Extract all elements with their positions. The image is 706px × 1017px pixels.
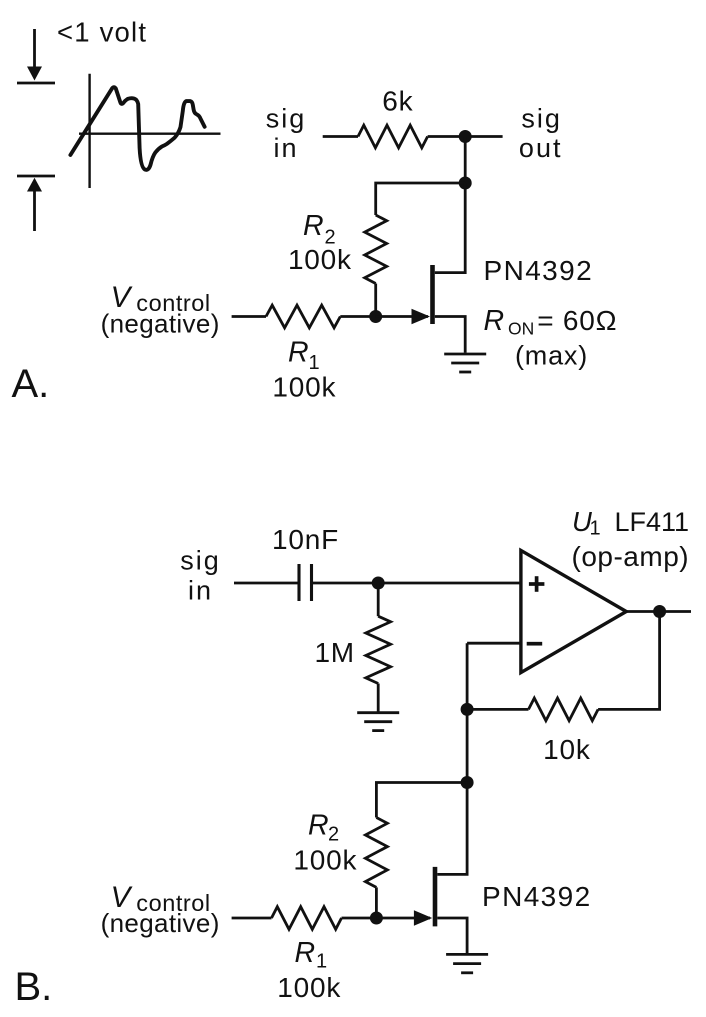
- transistor Q1 PN4392 channel bar (A): [430, 265, 435, 324]
- node: gate junction (A): [369, 310, 382, 323]
- wire: 10k to output branch: [598, 612, 660, 710]
- resistor R2 (B): [365, 818, 387, 888]
- wire: 6k to sig out: [428, 135, 503, 138]
- wire: op-amp output: [626, 610, 691, 613]
- svg-text:sig: sig: [266, 103, 307, 133]
- wire: Vcontrol to R1 (B): [232, 917, 272, 920]
- svg-text:10nF: 10nF: [272, 524, 339, 555]
- waveform axes: [79, 74, 221, 188]
- svg-text:1M: 1M: [314, 637, 355, 668]
- wire: inverting input: [467, 642, 521, 645]
- wire: node to R2 top (B): [376, 783, 467, 818]
- ground (A): [444, 354, 486, 372]
- svg-text:sig: sig: [521, 103, 562, 133]
- svg-text:LF411: LF411: [615, 507, 690, 537]
- drain lead (A): [435, 183, 465, 273]
- svg-text:in: in: [188, 576, 213, 606]
- transistor Q2 PN4392 channel bar (B): [433, 867, 438, 927]
- op-amp + symbol: [529, 576, 545, 592]
- annotation arrow (up): [17, 176, 55, 231]
- wire: feedback node down to drain node: [466, 709, 469, 782]
- svg-text:out: out: [519, 133, 563, 163]
- svg-text:100k: 100k: [293, 844, 357, 875]
- svg-text:= 60Ω: = 60Ω: [537, 305, 617, 336]
- wire: 1M to ground: [377, 684, 380, 713]
- op-amp - symbol: [527, 642, 543, 646]
- svg-text:R: R: [295, 937, 316, 969]
- wire: R2 bottom to gate node (B): [375, 887, 378, 918]
- svg-text:PN4392: PN4392: [482, 881, 592, 912]
- resistor R2 (A): [365, 215, 387, 284]
- svg-text:(max): (max): [515, 341, 588, 371]
- svg-text:1: 1: [590, 518, 601, 540]
- node: drain junction: [459, 177, 472, 190]
- svg-text:R: R: [288, 336, 309, 368]
- source lead (B): [437, 918, 467, 953]
- svg-text:ON: ON: [508, 319, 534, 339]
- node: sig out junction: [459, 130, 472, 143]
- op-amp U1 triangle: [521, 550, 626, 672]
- drain lead (B): [437, 783, 467, 875]
- svg-text:R: R: [484, 305, 505, 337]
- svg-text:R: R: [303, 210, 324, 242]
- wire: Vcontrol to R1: [232, 315, 266, 318]
- svg-text:<1 volt: <1 volt: [57, 17, 147, 48]
- node: gate junction (B): [370, 912, 383, 925]
- svg-text:(negative): (negative): [101, 308, 220, 338]
- waveform trace: [70, 87, 204, 170]
- svg-text:100k: 100k: [277, 972, 341, 1003]
- resistor 6k: [358, 125, 428, 148]
- svg-text:6k: 6k: [382, 85, 413, 116]
- wire: sig in to capacitor: [234, 582, 298, 585]
- ground (B): [446, 954, 488, 972]
- wire: node down to 1M: [377, 583, 380, 616]
- capacitor 10nF: [299, 564, 312, 601]
- resistor R1 (A): [266, 305, 340, 328]
- wire: node to R2 top: [376, 183, 466, 215]
- wire: sig in to 6k resistor: [323, 135, 358, 138]
- node: feedback junction: [461, 703, 474, 716]
- ground (1M): [357, 713, 399, 731]
- wire: down from sig-out node: [464, 137, 467, 184]
- annotation arrow (down) for <1 volt: [17, 29, 55, 83]
- wire: R1 to gate node: [340, 315, 375, 318]
- svg-text:PN4392: PN4392: [484, 255, 594, 286]
- node: drain junction (B): [461, 776, 474, 789]
- svg-text:R: R: [308, 809, 329, 841]
- wire: gate lead with arrow: [376, 315, 428, 318]
- wire: inv input down to feedback node: [466, 643, 469, 709]
- svg-text:100k: 100k: [272, 371, 336, 402]
- svg-text:(op-amp): (op-amp): [572, 541, 690, 572]
- wire: gate lead with arrow (B): [376, 917, 430, 920]
- svg-text:1: 1: [316, 951, 327, 973]
- resistor R1 (B): [272, 907, 342, 930]
- resistor 10k: [529, 698, 599, 721]
- wire: feedback node to 10k: [467, 708, 528, 711]
- svg-text:in: in: [273, 133, 298, 163]
- resistor 1M: [366, 616, 391, 683]
- svg-text:sig: sig: [180, 545, 221, 575]
- wire: R1 to gate node (B): [342, 917, 377, 920]
- wire: R2 bottom to gate node: [374, 284, 377, 317]
- svg-text:10k: 10k: [543, 734, 591, 765]
- svg-text:2: 2: [328, 824, 339, 846]
- svg-text:B.: B.: [15, 965, 53, 1009]
- node: input junction: [372, 577, 385, 590]
- wire: capacitor to op-amp + input: [313, 582, 520, 585]
- svg-text:A.: A.: [12, 362, 50, 406]
- svg-text:(negative): (negative): [101, 908, 220, 938]
- svg-text:100k: 100k: [288, 244, 352, 275]
- source lead (A): [435, 317, 465, 353]
- node: output junction: [653, 605, 666, 618]
